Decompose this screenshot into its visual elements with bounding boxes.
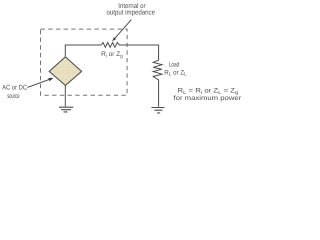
- svg-text:source: source: [7, 93, 20, 100]
- svg-text:AC or DC: AC or DC: [2, 84, 27, 91]
- svg-text:output impedance: output impedance: [107, 9, 156, 17]
- svg-text:for maximum power: for maximum power: [174, 95, 243, 102]
- svg-text:Load: Load: [169, 62, 180, 69]
